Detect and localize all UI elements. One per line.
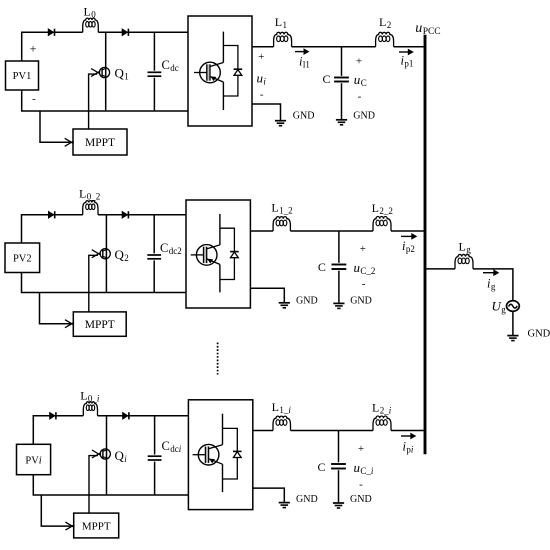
svg-text:MPPT: MPPT [82, 521, 111, 533]
inductor L2_i [373, 416, 391, 430]
label + (uC polarity) [360, 243, 366, 255]
label ipi [403, 440, 414, 455]
inverter block (row 3) [188, 400, 252, 510]
inductor L1_i [273, 416, 291, 430]
wire (L1 to L2, filter node) [291, 430, 374, 432]
switch Q1 [89, 67, 110, 129]
label + (ui polarity) [258, 51, 264, 63]
svg-text:-: - [359, 478, 363, 490]
label Cdc2 [160, 241, 182, 256]
svg-text:C: C [361, 78, 367, 88]
IGBT with freewheel diode (row 3) [193, 414, 242, 493]
PV source PV1 [6, 61, 39, 90]
label + (uC polarity) [356, 56, 362, 68]
svg-text:GND: GND [353, 111, 375, 122]
svg-text:-: - [358, 91, 362, 103]
label Lg [459, 240, 472, 255]
label GND [350, 494, 372, 505]
svg-text:Q: Q [115, 247, 125, 262]
ground (inverter return) [275, 120, 286, 126]
inductor L0_2 [83, 201, 98, 215]
wire (after L0 coil to inverter block) [98, 31, 188, 33]
label L1_i [272, 400, 292, 415]
svg-text:L: L [79, 187, 86, 201]
svg-text:p1: p1 [404, 59, 413, 69]
wire (L2 to PCC bus) [394, 46, 424, 48]
svg-text:-: - [32, 93, 36, 105]
svg-text:PV2: PV2 [13, 253, 32, 264]
label uC_2 [354, 260, 376, 276]
current arrow ipi [401, 433, 416, 440]
svg-text:C: C [160, 241, 168, 255]
current arrow ig [483, 269, 499, 276]
label - (uC polarity) [358, 91, 362, 103]
svg-text:2: 2 [387, 20, 392, 30]
label L0_2 [79, 187, 100, 202]
label L2_2 [372, 201, 393, 216]
diode D1a (input series diode) [48, 29, 54, 36]
label L1_2 [271, 201, 292, 216]
continuation dots (more inverters) [217, 343, 219, 375]
current arrow ip2 [401, 233, 417, 240]
svg-text:L: L [84, 5, 91, 19]
svg-text:C: C [162, 439, 170, 453]
svg-text:GND: GND [350, 494, 372, 505]
label + (uC polarity) [358, 443, 364, 455]
svg-text:dci: dci [170, 444, 182, 454]
label ip2 [402, 239, 415, 254]
label Cdci [162, 439, 182, 454]
current arrow il1 [295, 48, 310, 55]
svg-text:MPPT: MPPT [85, 137, 115, 149]
IGBT with freewheel diode (row 1) [194, 32, 242, 110]
svg-text:0: 0 [91, 10, 96, 20]
current arrow ip1 [399, 49, 414, 56]
AC grid source Ug [507, 301, 520, 312]
label Cdc [162, 58, 179, 73]
inductor L1 [274, 32, 292, 46]
inductor L2_2 [373, 217, 391, 231]
svg-text:u: u [415, 21, 422, 36]
label C [323, 72, 331, 86]
ground (filter capacitor) [336, 119, 347, 125]
diode D2b (boost diode) [122, 211, 128, 218]
label ig [487, 277, 496, 292]
svg-text:0_i: 0_i [88, 394, 100, 404]
ground (inverter return) [279, 502, 290, 508]
wire (switch Q1 leg) [105, 32, 107, 111]
wire (L1 to L2, filter node) [292, 46, 376, 48]
svg-text:L: L [372, 401, 379, 415]
svg-text:l1: l1 [303, 60, 310, 70]
label GND [293, 111, 315, 122]
label Ug [492, 299, 507, 315]
svg-text:PCC: PCC [423, 27, 441, 37]
svg-text:pi: pi [406, 445, 414, 455]
capacitor C (filter) [331, 431, 346, 503]
svg-text:+: + [30, 41, 37, 55]
wire (sense line to MPPT) [40, 293, 75, 328]
svg-text:PV1: PV1 [13, 71, 32, 82]
label L0_i [80, 389, 100, 404]
svg-text:1_i: 1_i [279, 405, 291, 415]
svg-text:GND: GND [528, 329, 550, 340]
label GND [350, 295, 372, 306]
label ip1 [401, 54, 414, 69]
svg-text:MPPT: MPPT [85, 319, 115, 331]
svg-text:1: 1 [283, 20, 288, 30]
svg-text:Q: Q [115, 66, 125, 81]
wire (inverter output to L1) [250, 230, 273, 232]
wire (switch Q2 leg) [105, 215, 107, 293]
svg-text:-: - [362, 278, 366, 290]
label L1 [275, 15, 287, 30]
switch Q2 [89, 249, 110, 312]
svg-text:GND: GND [293, 111, 315, 122]
svg-text:+: + [360, 243, 366, 255]
label L2_i [372, 401, 392, 416]
label GND [296, 295, 318, 306]
label Qi [115, 448, 128, 464]
wire (PV- to inverter bottom) [22, 90, 188, 111]
label GND [296, 494, 318, 505]
svg-text:L: L [80, 389, 87, 403]
svg-text:0_2: 0_2 [87, 192, 101, 202]
wire (PV- to inverter bottom) [22, 273, 187, 293]
svg-text:dc: dc [170, 63, 179, 73]
label GND [528, 329, 550, 340]
wire (switch Qi leg) [106, 416, 108, 495]
wire (PV+ to boost input) [22, 32, 83, 61]
label - (uC polarity) [362, 278, 366, 290]
svg-text:g: g [491, 282, 496, 292]
capacitor C (filter) [334, 47, 349, 120]
svg-text:GND: GND [296, 295, 318, 306]
inverter block (row 1) [188, 16, 252, 126]
svg-text:C: C [318, 260, 326, 274]
svg-text:GND: GND [296, 494, 318, 505]
svg-text:C_i: C_i [360, 466, 374, 476]
ground (inverter return) [279, 302, 290, 308]
wire (PV+ to boost input) [33, 416, 83, 445]
label il1 [299, 55, 310, 70]
inductor L0_i [83, 402, 97, 416]
label C [318, 460, 326, 474]
label uPCC [415, 21, 440, 37]
svg-text:2_2: 2_2 [379, 206, 393, 216]
label - (PV negative) [32, 93, 36, 105]
diode D1b (boost diode) [122, 29, 128, 36]
wire (bus to Lg) [426, 268, 455, 270]
wire (sense line to MPPT) [41, 495, 74, 530]
label uC [354, 72, 367, 88]
wire (inverter output to L1) [252, 46, 274, 48]
label ui [257, 71, 267, 87]
bus uPCC (point of common coupling) [424, 35, 427, 455]
svg-text:2_i: 2_i [380, 406, 392, 416]
ground (filter capacitor) [333, 503, 344, 509]
svg-text:C: C [162, 58, 170, 72]
svg-text:C: C [323, 72, 331, 86]
svg-text:dc2: dc2 [169, 246, 182, 256]
PV source PVi [17, 444, 51, 474]
ground (grid) [507, 335, 518, 341]
svg-text:GND: GND [350, 295, 372, 306]
wire (PV+ to boost input) [22, 215, 83, 243]
label - (uC polarity) [359, 478, 363, 490]
wire (Lg to grid source) [473, 269, 513, 301]
label uC_i [354, 460, 374, 476]
svg-text:+: + [258, 51, 264, 63]
svg-text:2: 2 [124, 253, 129, 263]
MPPT controller [73, 129, 127, 155]
label Q2 [115, 247, 129, 263]
wire (after L0 coil to inverter block) [98, 415, 189, 417]
wire (sense line to MPPT) [40, 111, 74, 146]
svg-text:L: L [459, 240, 466, 254]
wire (inverter output to L1) [253, 430, 273, 432]
label - (ui polarity) [260, 89, 264, 101]
svg-text:L: L [272, 400, 279, 414]
wire (L2 to PCC bus) [391, 430, 424, 432]
capacitor Cdc2 [147, 215, 161, 293]
inductor L1_2 [273, 217, 290, 231]
wire (inverter return) [250, 288, 284, 302]
svg-text:L: L [372, 201, 379, 215]
inductor Lg [455, 254, 473, 268]
diode D2a (input series diode) [48, 211, 54, 218]
svg-text:Q: Q [115, 448, 125, 463]
inverter block (row 2) [186, 200, 250, 308]
capacitor Cdci [148, 416, 162, 495]
label + (PV positive) [30, 41, 37, 55]
wire (PV- to inverter bottom) [33, 475, 188, 495]
label GND [353, 111, 375, 122]
svg-text:PVi: PVi [25, 455, 41, 466]
wire (inverter return) [252, 104, 281, 120]
svg-text:+: + [356, 56, 362, 68]
diode D3b (boost diode) [123, 412, 129, 419]
svg-text:L: L [379, 15, 386, 29]
MPPT controller [73, 312, 126, 336]
svg-text:-: - [260, 89, 264, 101]
svg-text:g: g [466, 245, 471, 255]
svg-text:L: L [275, 15, 282, 29]
svg-text:C: C [318, 460, 326, 474]
wire (after L0 coil to inverter block) [98, 214, 186, 216]
capacitor Cdc [148, 32, 162, 111]
wire (L2 to PCC bus) [391, 230, 424, 232]
inductor L0 [83, 18, 99, 32]
MPPT controller [74, 513, 119, 538]
switch Qi [89, 449, 110, 513]
label C [318, 260, 326, 274]
diode D3a (input series diode) [50, 412, 56, 419]
wire (source to ground) [512, 311, 514, 335]
svg-text:1: 1 [124, 72, 129, 82]
capacitor C (filter) [332, 231, 347, 303]
PV source PV2 [5, 243, 40, 273]
svg-text:C_2: C_2 [360, 266, 375, 276]
svg-text:1_2: 1_2 [279, 206, 293, 216]
inductor L2 [376, 32, 394, 46]
label Q1 [115, 66, 129, 82]
svg-text:+: + [358, 443, 364, 455]
ground (filter capacitor) [333, 303, 344, 309]
wire (inverter return) [253, 488, 284, 502]
svg-text:p2: p2 [406, 244, 415, 254]
svg-text:L: L [271, 201, 278, 215]
label L0 [84, 5, 97, 20]
wire (L1 to L2, filter node) [290, 230, 373, 232]
label L2 [379, 15, 391, 30]
svg-text:g: g [501, 305, 506, 315]
IGBT with freewheel diode (row 2) [191, 214, 239, 293]
